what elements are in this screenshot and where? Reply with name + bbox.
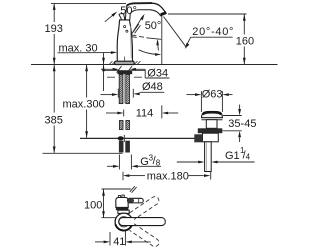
svg-text:50°: 50° [120, 5, 137, 17]
wire spout tip vertical reference [161, 16, 163, 64]
dimension max.30 below-deck arrow right [103, 65, 105, 91]
svg-text:max.300: max.300 [63, 99, 105, 111]
top view lever capsule [128, 198, 144, 203]
deck section hatch marks [109, 61, 140, 64]
faucet body front view [117, 20, 132, 62]
top view body rings [118, 210, 129, 213]
node pivot circles on body [124, 26, 126, 28]
node rod ball joint [118, 136, 124, 140]
faucet spout [125, 3, 166, 20]
dimension diameter 34 arrows at deck [101, 68, 113, 70]
top view faucet dome and lever [116, 198, 128, 208]
locknut and washer under deck [118, 70, 133, 74]
svg-text:35-45: 35-45 [228, 118, 256, 130]
spout tip aerator dark band [160, 11, 166, 16]
dimension 114 horizontal [123, 110, 125, 117]
wire leader through lever to spout underside [131, 17, 142, 35]
svg-text:160: 160 [236, 36, 254, 48]
svg-text:114: 114 [136, 107, 154, 119]
wire lever open position dashes [131, 34, 136, 37]
wire spray angle diagonal [164, 17, 187, 48]
drain rod port dark [194, 134, 202, 142]
faucet base centerline [123, 57, 125, 62]
drain pop-up waste flange [202, 112, 223, 118]
svg-text:193: 193 [45, 23, 63, 35]
wire dashed swivel spout lower [130, 224, 161, 248]
dimension 41 [109, 232, 111, 246]
svg-text:G1: G1 [225, 150, 240, 162]
svg-text:20°-40°: 20°-40° [192, 26, 234, 38]
svg-text:8: 8 [156, 158, 161, 167]
svg-text:Ø34: Ø34 [147, 68, 168, 80]
faucet lever upright stick [119, 14, 125, 20]
svg-text:Ø48: Ø48 [142, 81, 163, 93]
drain tailpipe [205, 142, 212, 172]
hose nipples hatched [119, 121, 123, 130]
svg-text:max.180: max.180 [147, 170, 189, 182]
wire small arc arrow right [139, 50, 158, 55]
wire pop-up rod [80, 137, 195, 139]
dimension max.180 [122, 172, 124, 180]
dimension max.300 vertical line [86, 65, 88, 98]
svg-text:50°: 50° [145, 20, 162, 32]
svg-text:385: 385 [45, 115, 63, 127]
top view spout bar [119, 218, 166, 226]
dimension 100 top view [102, 188, 131, 190]
drain locknut dark [198, 128, 223, 133]
top view hinge bumps [118, 195, 124, 197]
svg-text:100: 100 [84, 199, 102, 211]
wire 193 top reference line [51, 2, 126, 4]
dimension 35-45 [223, 115, 242, 117]
top view body circle [115, 213, 132, 230]
wire 160 top reference line [168, 13, 247, 15]
wire shank centerline [123, 75, 125, 104]
lever closed stick double line [133, 24, 139, 32]
svg-text:4: 4 [246, 152, 251, 161]
dimension 385 vertical line below deck [53, 65, 55, 113]
dimension 160 vertical line [243, 15, 245, 35]
svg-text:41: 41 [113, 236, 125, 248]
svg-text:Ø63: Ø63 [202, 89, 223, 101]
svg-text:G: G [140, 156, 149, 168]
wire 385 bottom reference line [43, 152, 123, 154]
faucet base escutcheon [115, 61, 135, 64]
top view cap base dark band [116, 208, 128, 211]
dimension G1 1/4 [177, 161, 198, 163]
threaded shank hatched [119, 74, 129, 103]
spout top thick edge [127, 3, 152, 6]
dimension 193 vertical line [53, 4, 55, 22]
dimension G3/8 [118, 155, 120, 170]
drain neck [206, 120, 217, 129]
wire dashed swivel spout upper [130, 195, 161, 248]
dimension diameter 63 [200, 91, 202, 112]
dimension diameter 48 [117, 89, 119, 98]
hose nipple threads dark [119, 141, 124, 153]
wire leader arrow for upper 50 degree [105, 15, 113, 22]
drain body [203, 133, 219, 142]
wire small arc arrow up [157, 41, 160, 51]
dimension max.30 left extension x=54.2 handled above; right drop [103, 53, 105, 64]
wire deck line [31, 64, 278, 66]
